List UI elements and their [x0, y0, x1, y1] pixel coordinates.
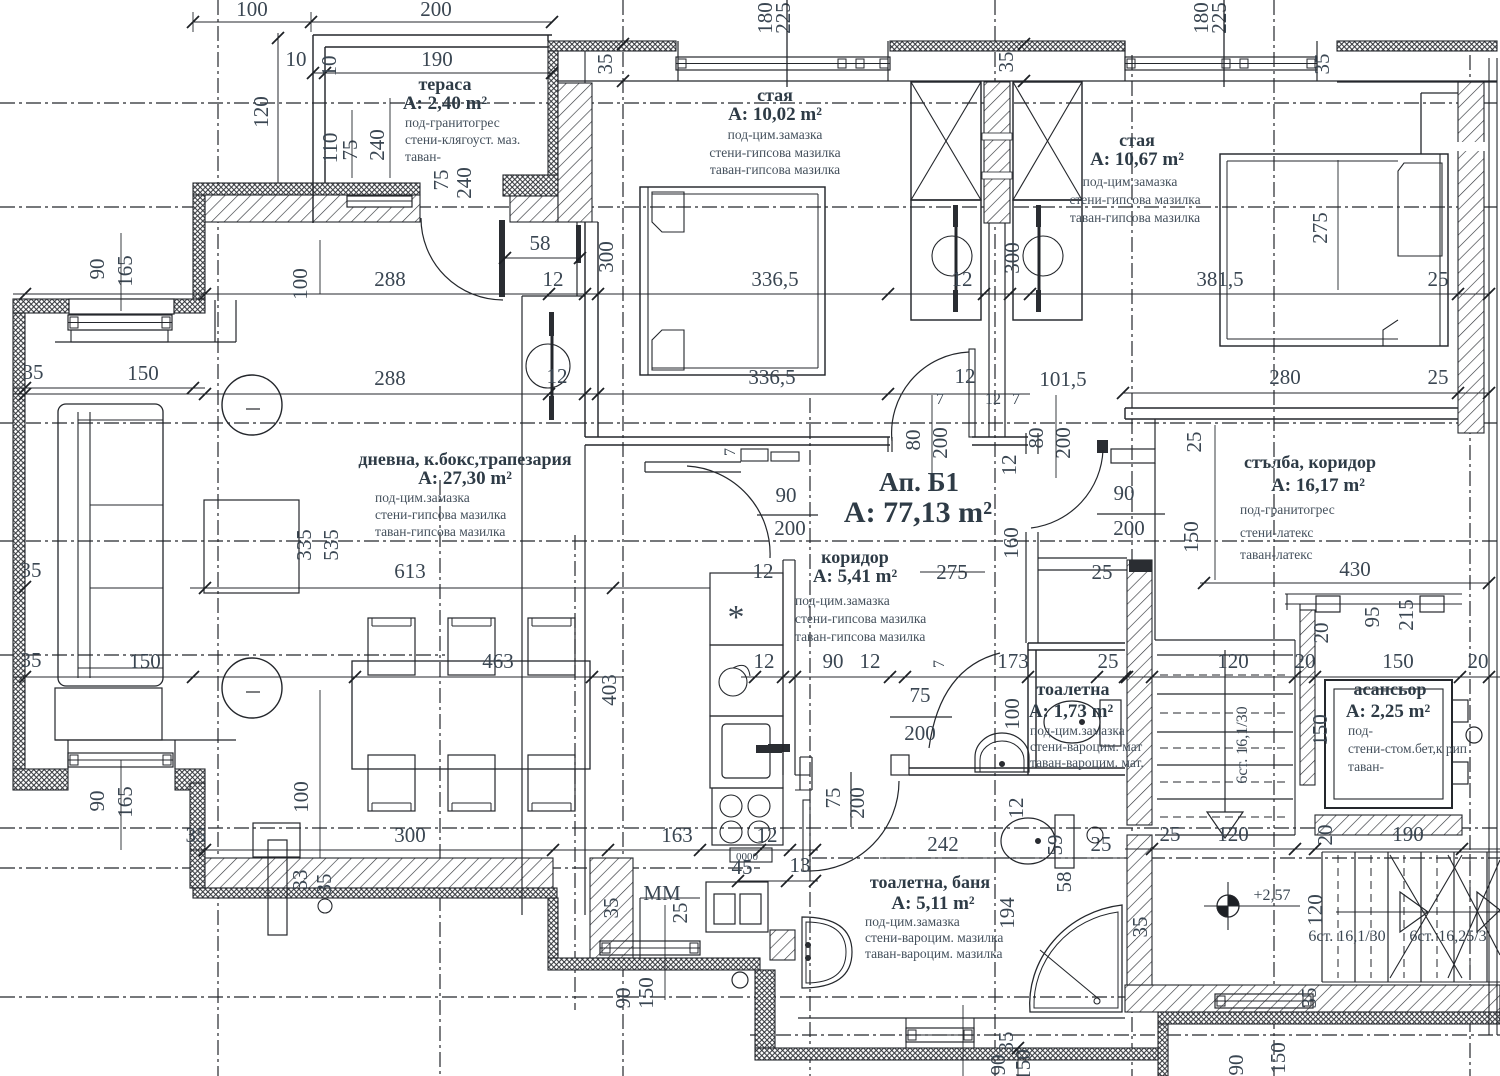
corridor north wall (bedroom1 south) [585, 436, 890, 438]
kitchen sink [710, 645, 783, 716]
svg-text:613: 613 [394, 559, 426, 583]
svg-text:120: 120 [1217, 649, 1249, 673]
window bay top [68, 315, 172, 330]
svg-text:200: 200 [845, 787, 869, 819]
svg-text:215: 215 [1394, 599, 1418, 631]
svg-text:таван-: таван- [1348, 759, 1384, 774]
svg-text:35: 35 [994, 52, 1018, 73]
svg-text:190: 190 [421, 47, 453, 71]
svg-text:101,5: 101,5 [1039, 367, 1086, 391]
window bedroom1 north [676, 57, 890, 70]
svg-text:под-цим.замазка: под-цим.замазка [1083, 174, 1178, 189]
bath pier hatch [770, 930, 795, 960]
svg-text:А: 5,41 m²: А: 5,41 m² [813, 566, 898, 587]
svg-text:стени-вароцим. мат: стени-вароцим. мат [1030, 739, 1142, 754]
svg-text:12: 12 [997, 455, 1021, 476]
pocket door living strip [551, 312, 554, 420]
svg-text:7: 7 [936, 391, 944, 408]
svg-text:под-гранитогрес: под-гранитогрес [1240, 502, 1335, 517]
svg-text:275: 275 [1308, 212, 1332, 244]
svg-text:стая: стая [757, 85, 793, 105]
svg-text:150: 150 [1011, 1049, 1035, 1076]
svg-text:150: 150 [1308, 714, 1332, 746]
svg-text:58: 58 [1052, 872, 1076, 893]
svg-text:240: 240 [452, 167, 476, 199]
corridor south wall [909, 767, 1028, 769]
svg-text:А: 10,02 m²: А: 10,02 m² [728, 104, 822, 125]
svg-text:80: 80 [1024, 428, 1048, 449]
svg-text:под-цим.замазка: под-цим.замазка [728, 127, 823, 142]
vent channel lines [988, 223, 990, 437]
svg-text:288: 288 [374, 267, 406, 291]
svg-text:12: 12 [860, 649, 881, 673]
svg-text:стени-гипсова мазилка: стени-гипсова мазилка [375, 507, 506, 522]
living/terrace duct strip [521, 296, 523, 915]
svg-text:под-гранитогрес: под-гранитогрес [405, 115, 500, 130]
window in terrace-left wall [347, 196, 412, 207]
svg-text:200: 200 [904, 721, 936, 745]
svg-text:стени-гипсова мазилка: стени-гипсова мазилка [1069, 192, 1200, 207]
bed bedroom1 [640, 187, 825, 375]
horizontal dimension line y294 [13, 293, 1030, 295]
terrace corner wall pieces [503, 175, 558, 196]
svg-text:100: 100 [288, 268, 312, 300]
top wall inner edge line [558, 80, 1497, 82]
svg-text:таван-гипсова мазилка: таван-гипсова мазилка [1070, 210, 1200, 225]
svg-text:стени-гипсова мазилка: стени-гипсова мазилка [795, 611, 926, 626]
svg-text:6ст. 16,25/3: 6ст. 16,25/3 [1409, 928, 1486, 945]
stair corridor entrance step [1111, 449, 1155, 463]
electric panel MM [706, 882, 768, 932]
svg-text:535: 535 [319, 529, 343, 561]
svg-text:280: 280 [1269, 365, 1301, 389]
kitchen oven [710, 716, 783, 788]
svg-text:242: 242 [927, 832, 959, 856]
bath south wall band [755, 1048, 1168, 1060]
svg-text:таван-вароцим. мазилка: таван-вароцим. мазилка [865, 946, 1002, 961]
elevator cab [1325, 680, 1452, 808]
svg-text:стълба, коридор: стълба, коридор [1244, 452, 1376, 472]
svg-text:59: 59 [1043, 835, 1067, 856]
svg-text:165: 165 [113, 255, 137, 287]
svg-text:35: 35 [1297, 988, 1321, 1009]
bedroom1 west wall [584, 222, 586, 437]
svg-text:58: 58 [530, 231, 551, 255]
toilet room walls [1028, 642, 1125, 644]
horizontal dimension line y394 [13, 393, 892, 395]
svg-text:12: 12 [955, 364, 976, 388]
left wall verticals and jogs [193, 195, 205, 300]
svg-text:35: 35 [23, 360, 44, 384]
svg-text:А: 27,30 m²: А: 27,30 m² [418, 468, 512, 489]
svg-text:20: 20 [1309, 623, 1333, 644]
svg-text:А: 2,25 m²: А: 2,25 m² [1346, 701, 1431, 722]
svg-text:12: 12 [985, 391, 1001, 408]
svg-text:35: 35 [186, 823, 207, 847]
stairs lower flight [1321, 852, 1323, 982]
svg-text:90: 90 [1114, 481, 1135, 505]
window bedroom2 north [1125, 57, 1317, 70]
svg-text:35: 35 [1310, 54, 1334, 75]
svg-text:7: 7 [722, 448, 739, 456]
door bath leaf and arc [803, 800, 810, 871]
bath west wall upper [799, 757, 801, 790]
svg-text:коридор: коридор [821, 547, 889, 567]
svg-text:А: 10,67 m²: А: 10,67 m² [1090, 149, 1184, 170]
svg-text:95: 95 [1360, 607, 1384, 628]
svg-text:0000: 0000 [736, 851, 759, 863]
break in right wall hatch [1454, 142, 1488, 151]
window MM room [600, 941, 700, 955]
svg-text:25: 25 [1428, 267, 1449, 291]
living room south wall [205, 858, 553, 888]
shower tray [1030, 905, 1122, 1012]
svg-text:Ап. Б1: Ап. Б1 [879, 467, 959, 497]
svg-text:35: 35 [599, 898, 623, 919]
svg-text:12: 12 [754, 649, 775, 673]
stairwell west wall [1127, 560, 1152, 825]
svg-text:12: 12 [757, 823, 778, 847]
stairwell west boundary upper [1154, 463, 1156, 640]
svg-text:стени-вароцим. мазилка: стени-вароцим. мазилка [865, 930, 1003, 945]
svg-text:200: 200 [774, 516, 806, 540]
svg-text:75: 75 [821, 788, 845, 809]
svg-text:таван-гипсова мазилка: таван-гипсова мазилка [795, 629, 925, 644]
building right edge double line [1488, 58, 1490, 1035]
interior shaft wall between bedrooms [984, 82, 1010, 223]
svg-text:10: 10 [286, 47, 307, 71]
bedroom2 south wall [1125, 407, 1458, 409]
svg-text:тоалетна: тоалетна [1036, 679, 1109, 699]
svg-text:120: 120 [1303, 894, 1327, 926]
toilet 2 [1001, 818, 1055, 864]
svg-text:дневна, к.бокс,трапезария: дневна, к.бокс,трапезария [358, 449, 571, 469]
svg-text:90: 90 [611, 988, 635, 1009]
svg-text:300: 300 [394, 823, 426, 847]
svg-text:А: 2,40 m²: А: 2,40 m² [403, 93, 488, 114]
svg-text:150: 150 [1179, 521, 1203, 553]
svg-text:таван-вароцим. мат.: таван-вароцим. мат. [1030, 755, 1144, 770]
svg-text:25: 25 [1098, 649, 1119, 673]
svg-text:7: 7 [1012, 391, 1020, 408]
svg-text:А: 1,73 m²: А: 1,73 m² [1029, 701, 1114, 722]
svg-text:335: 335 [292, 529, 316, 561]
corridor dimension row [741, 676, 1125, 678]
svg-text:200: 200 [1051, 427, 1075, 459]
door living-corridor arc [687, 466, 770, 558]
svg-text:190: 190 [1392, 822, 1424, 846]
sofa [58, 404, 163, 686]
wardrobe bedroom1 with X [911, 82, 981, 200]
south wall corner step down [548, 898, 558, 958]
svg-text:35: 35 [312, 874, 336, 895]
top dimension row [193, 21, 552, 23]
svg-text:25: 25 [1182, 432, 1206, 453]
bottom-left dimension row [190, 849, 818, 851]
door bedroom1 leaf and arc [969, 349, 975, 437]
kitchen cooktop [712, 788, 783, 845]
svg-text:100: 100 [289, 781, 313, 813]
svg-text:150: 150 [634, 977, 658, 1009]
svg-text:163: 163 [661, 823, 693, 847]
svg-text:12: 12 [753, 559, 774, 583]
svg-text:90: 90 [776, 483, 797, 507]
svg-text:120: 120 [249, 96, 273, 128]
bay window niche lines [67, 740, 69, 769]
svg-text:90: 90 [1224, 1055, 1248, 1076]
grid axes dash-dot [217, 0, 219, 1076]
svg-text:100: 100 [1000, 698, 1024, 730]
bed bedroom2 [1220, 154, 1448, 346]
svg-text:336,5: 336,5 [748, 365, 795, 389]
svg-text:160: 160 [999, 527, 1023, 559]
coffee table [204, 500, 299, 593]
svg-text:13: 13 [790, 853, 811, 877]
svg-text:75: 75 [338, 140, 362, 161]
svg-text:75: 75 [910, 683, 931, 707]
svg-text:35: 35 [21, 648, 42, 672]
svg-text:300: 300 [1000, 242, 1024, 274]
svg-text:100: 100 [236, 0, 268, 21]
svg-text:стени-латекс: стени-латекс [1240, 525, 1313, 540]
svg-text:25: 25 [668, 903, 692, 924]
dining chairs [368, 618, 415, 675]
svg-text:75: 75 [429, 170, 453, 191]
svg-text:120: 120 [1217, 822, 1249, 846]
58 dimension [505, 257, 580, 259]
svg-text:+2,57: +2,57 [1253, 887, 1290, 904]
corridor north-west boundary [645, 461, 741, 463]
svg-text:90: 90 [986, 1055, 1010, 1076]
svg-text:150: 150 [1266, 1042, 1290, 1074]
svg-text:225: 225 [771, 2, 795, 34]
toilet 1 [1044, 701, 1100, 743]
svg-text:стени-клягоуст. маз.: стени-клягоуст. маз. [405, 132, 520, 147]
svg-text:25: 25 [1091, 832, 1112, 856]
bath west wall [755, 970, 775, 1048]
svg-text:288: 288 [374, 366, 406, 390]
door toilet arc [929, 653, 1000, 748]
svg-text:20: 20 [1468, 649, 1489, 673]
svg-text:20: 20 [1295, 649, 1316, 673]
svg-text:асансьор: асансьор [1353, 679, 1426, 699]
svg-text:33: 33 [288, 870, 312, 891]
bath washbasin [802, 917, 852, 988]
svg-text:ММ: ММ [643, 881, 681, 905]
stairs upper flight [1155, 639, 1295, 641]
svg-text:200: 200 [420, 0, 452, 21]
svg-text:таван-: таван- [405, 149, 441, 164]
svg-text:под-цим.замазка: под-цим.замазка [375, 490, 470, 505]
dining table [352, 661, 590, 769]
svg-text:381,5: 381,5 [1196, 267, 1243, 291]
svg-text:12: 12 [1004, 798, 1028, 819]
svg-text:стени-гипсова мазилка: стени-гипсова мазилка [709, 145, 840, 160]
MM niche boundary [639, 898, 641, 958]
svg-text:6ст. 16,1/30: 6ст. 16,1/30 [1234, 706, 1251, 783]
svg-text:80: 80 [901, 430, 925, 451]
svg-text:240: 240 [365, 129, 389, 161]
svg-text:12: 12 [547, 364, 568, 388]
corridor washbasin [975, 733, 1029, 772]
svg-text:430: 430 [1339, 557, 1371, 581]
svg-text:403: 403 [597, 674, 621, 706]
svg-text:12: 12 [952, 267, 973, 291]
svg-text:стая: стая [1119, 130, 1155, 150]
svg-text:20: 20 [1313, 825, 1337, 846]
elevator north wall [1285, 593, 1462, 595]
exterior wall top band segment 3 [1337, 41, 1497, 51]
svg-text:90: 90 [823, 649, 844, 673]
svg-text:А: 16,17 m²: А: 16,17 m² [1271, 475, 1365, 496]
svg-text:150: 150 [1382, 649, 1414, 673]
svg-text:35: 35 [1128, 917, 1152, 938]
svg-text:25: 25 [1160, 822, 1181, 846]
pocket door bedroom2 [1038, 205, 1041, 312]
svg-text:25: 25 [1428, 365, 1449, 389]
613 dimension [190, 587, 710, 589]
svg-text:200: 200 [1113, 516, 1145, 540]
bath interior south line [798, 1017, 1125, 1019]
svg-text:тераса: тераса [418, 74, 471, 94]
svg-text:таван-гипсова мазилка: таван-гипсова мазилка [375, 524, 505, 539]
axis bubbles [222, 375, 282, 435]
svg-text:12: 12 [543, 267, 564, 291]
svg-text:таван-латекс: таван-латекс [1240, 547, 1312, 562]
svg-text:463: 463 [482, 649, 514, 673]
svg-text:90: 90 [85, 791, 109, 812]
chimney block [253, 823, 300, 857]
corridor east wall [1025, 433, 1027, 454]
svg-text:35: 35 [21, 558, 42, 582]
exterior wall top band segment 1 [548, 41, 676, 51]
svg-text:336,5: 336,5 [751, 267, 798, 291]
svg-text:под-цим.замазка: под-цим.замазка [795, 593, 890, 608]
svg-text:стени-стом.бет,к рип: стени-стом.бет,к рип [1348, 741, 1467, 756]
exterior wall top band segment 2 [890, 41, 1125, 51]
svg-text:150: 150 [129, 649, 161, 673]
kitchen east wall [782, 560, 784, 775]
window bay bottom [68, 753, 173, 767]
wall under terrace left part [193, 183, 420, 195]
window stairwell south [1215, 994, 1313, 1008]
cabinet below sofa [55, 688, 162, 740]
wardrobe bedroom2 with X [1013, 82, 1082, 200]
svg-text:тоалетна, баня: тоалетна, баня [870, 872, 990, 892]
terrace parapet [313, 34, 552, 36]
pocket door bedroom1 [955, 205, 958, 312]
svg-text:150: 150 [127, 361, 159, 385]
window bath south [906, 1028, 974, 1042]
svg-text:90: 90 [85, 259, 109, 280]
svg-text:6ст. 16,1/30: 6ст. 16,1/30 [1308, 928, 1385, 945]
svg-text:под-цим.замазка: под-цим.замазка [865, 914, 960, 929]
svg-text:25: 25 [1092, 560, 1113, 584]
svg-text:под-: под- [1348, 723, 1373, 738]
kitchen fridge [710, 573, 783, 645]
corridor-toilet north wall [1038, 557, 1127, 559]
svg-text:под-цим.замазка: под-цим.замазка [1030, 723, 1125, 738]
level mark [1217, 895, 1239, 917]
svg-text:А: 77,13 m²: А: 77,13 m² [844, 496, 992, 529]
elevator shaft walls [1300, 610, 1315, 785]
svg-text:таван-гипсова мазилка: таван-гипсова мазилка [710, 162, 840, 177]
svg-text:А: 5,11 m²: А: 5,11 m² [891, 893, 975, 914]
door pocket rects near corridor [741, 449, 768, 461]
terrace door leaf and arc [499, 220, 505, 297]
svg-text:300: 300 [594, 241, 618, 273]
svg-text:165: 165 [113, 786, 137, 818]
svg-text:225: 225 [1207, 2, 1231, 34]
svg-text:173: 173 [997, 649, 1029, 673]
svg-text:10: 10 [317, 56, 341, 77]
door corridor-stairhall leaf and arc [1097, 440, 1108, 453]
stairwell dims [1100, 676, 1500, 678]
svg-text:7: 7 [931, 660, 948, 668]
right exterior wall hatch [1458, 82, 1484, 433]
svg-text:35: 35 [593, 54, 617, 75]
svg-text:*: * [728, 599, 745, 636]
svg-text:194: 194 [995, 897, 1019, 929]
stairwell south wall band [1125, 985, 1500, 1012]
